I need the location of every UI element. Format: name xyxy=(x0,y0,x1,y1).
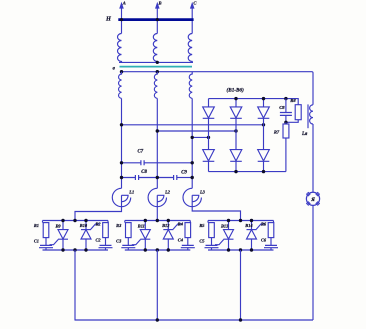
capacitor C4 lead xyxy=(187,238,189,246)
thyristor B14 gate xyxy=(256,224,265,229)
capacitor C1 lead xyxy=(45,238,47,246)
svg-text:B: B xyxy=(158,1,162,6)
thyristor B11 xyxy=(144,221,146,230)
node B-tap xyxy=(156,129,159,132)
capacitor C8 xyxy=(135,175,138,180)
svg-text:C5: C5 xyxy=(199,238,205,243)
svg-text:B12: B12 xyxy=(161,223,170,228)
motor armature circle xyxy=(306,192,319,205)
capacitor C9 wire xyxy=(177,177,192,179)
node row2-B xyxy=(156,176,159,179)
resistor R4 xyxy=(189,221,191,223)
svg-text:Lя: Lя xyxy=(301,132,308,137)
node star-B xyxy=(156,70,159,73)
thyristor B11 gate xyxy=(132,240,141,245)
wire phase C to bridge leg1 xyxy=(192,136,208,138)
module 3 bottom node xyxy=(227,248,230,251)
transformer primary winding W1 xyxy=(118,34,122,63)
node bridge top leg3 xyxy=(262,97,265,100)
svg-text:(B1-B6): (B1-B6) xyxy=(227,86,245,93)
resistor R7 xyxy=(285,122,287,124)
phase C arrow xyxy=(190,2,195,9)
svg-text:R8: R8 xyxy=(290,98,296,103)
module 3 top node xyxy=(227,219,230,222)
capacitor C3 xyxy=(121,245,135,247)
diode B3 xyxy=(263,99,265,107)
transformer core xyxy=(120,66,193,68)
module 3 top rail xyxy=(208,220,274,222)
node bus m2 xyxy=(156,318,159,321)
node leg2-tap xyxy=(234,129,237,132)
module 1 top node xyxy=(73,219,76,222)
capacitor C5 xyxy=(205,245,219,247)
svg-text:L2: L2 xyxy=(164,189,171,194)
node bridge bottom leg3 xyxy=(262,170,265,173)
module 2 bottom rail xyxy=(125,249,191,251)
phase C vertical wire xyxy=(191,98,193,188)
capacitor C8 wire xyxy=(122,177,174,179)
capacitor C5 lead xyxy=(211,238,213,246)
motor brush xyxy=(307,202,311,206)
phase B vertical wire xyxy=(156,98,158,188)
thyristor B12 gate xyxy=(173,224,182,229)
bridge bottom rail xyxy=(209,171,286,173)
transformer secondary winding w1 xyxy=(119,72,122,99)
node bus-A xyxy=(120,18,123,21)
svg-text:R6: R6 xyxy=(261,222,267,227)
module 2 top node xyxy=(156,219,159,222)
thyristor B13 gate xyxy=(215,240,224,245)
node bus m3 xyxy=(239,318,242,321)
phase B input line xyxy=(156,7,158,34)
capacitor C3 lead xyxy=(127,238,129,246)
capacitor C6 xyxy=(264,245,278,247)
module 2 top rail xyxy=(125,220,191,222)
svg-text:C4: C4 xyxy=(178,238,184,243)
reactor L3 xyxy=(183,188,201,206)
svg-text:R5: R5 xyxy=(199,223,205,228)
diode B6 xyxy=(258,150,270,161)
node row2-C xyxy=(191,176,194,179)
node star-A xyxy=(120,70,123,73)
reactor L1 xyxy=(112,188,130,206)
thyristor B14 xyxy=(251,221,253,230)
wire phase B to bridge leg2 xyxy=(157,130,236,132)
diode B1 xyxy=(208,99,210,107)
thyristor B13 xyxy=(228,221,230,230)
module 2 bottom node xyxy=(167,248,170,251)
transformer secondary winding w2 xyxy=(154,72,157,99)
node bridge top leg2 xyxy=(234,97,237,100)
wire La to motor xyxy=(312,124,314,192)
reactor La winding xyxy=(310,105,313,124)
transformer primary winding W3 xyxy=(188,34,192,63)
module 1 bottom node xyxy=(61,248,64,251)
thyristor B9 xyxy=(62,221,64,230)
diode B4 xyxy=(203,150,215,161)
module 2 bottom node xyxy=(156,248,159,251)
diode B5 xyxy=(230,150,242,161)
thyristor B10 gate xyxy=(91,224,100,229)
bottom bus xyxy=(75,319,314,321)
resistor R1 xyxy=(42,221,44,223)
module 1 bottom node xyxy=(84,248,87,251)
wire reactor L3 to module 3 xyxy=(192,207,240,221)
module 2 top node xyxy=(144,219,147,222)
secondary star bus wire xyxy=(122,72,314,105)
bus bar H xyxy=(118,18,193,21)
svg-text:C6: C6 xyxy=(261,238,267,243)
motor brush xyxy=(307,192,311,196)
reactor L2 xyxy=(148,188,166,206)
module 1 top node xyxy=(61,219,64,222)
capacitor C1 xyxy=(39,245,53,247)
module 1 drop wire xyxy=(74,250,76,320)
resistor R8 xyxy=(295,105,301,120)
capacitor C9 xyxy=(174,175,177,180)
phase A vertical wire xyxy=(121,98,123,188)
transformer primary winding W2 xyxy=(153,34,157,63)
motor brush xyxy=(316,202,320,206)
phase A arrow xyxy=(119,2,124,9)
svg-text:B11: B11 xyxy=(137,223,145,228)
module 3 top node xyxy=(250,219,253,222)
svg-text:L1: L1 xyxy=(128,189,134,194)
capacitor C7 wire xyxy=(122,162,193,164)
diode B2 xyxy=(235,99,237,107)
svg-text:C2: C2 xyxy=(96,238,102,243)
capacitor C6 lead xyxy=(270,238,272,246)
capacitor C2 lead xyxy=(105,238,107,246)
module 3 bottom node xyxy=(239,248,242,251)
resistor R5 xyxy=(207,221,209,223)
node RC junction xyxy=(284,121,287,124)
svg-text:A: A xyxy=(122,1,126,6)
bridge top rail xyxy=(209,99,299,105)
node row1-C xyxy=(191,161,194,164)
svg-text:R1: R1 xyxy=(34,223,39,228)
svg-text:R3: R3 xyxy=(116,223,122,228)
node A-tap xyxy=(120,123,123,126)
svg-text:B13: B13 xyxy=(220,223,229,228)
svg-text:C9: C9 xyxy=(181,171,187,176)
wire reactor L2 to module 2 xyxy=(156,207,158,221)
svg-text:R2: R2 xyxy=(96,222,102,227)
module 1 top rail xyxy=(43,220,109,222)
svg-text:R4: R4 xyxy=(178,222,184,227)
thyristor B12 xyxy=(167,221,169,230)
module 2 bottom node xyxy=(144,248,147,251)
motor brush xyxy=(316,192,320,196)
capacitor C2 xyxy=(99,245,113,247)
capacitor C7 xyxy=(141,160,144,165)
capacitor C4 xyxy=(181,245,195,247)
wire motor to bottom bus xyxy=(312,205,314,320)
node leg1-tap xyxy=(207,136,210,139)
svg-text:L3: L3 xyxy=(199,189,206,194)
resistor R3 xyxy=(124,221,126,223)
node C-tap xyxy=(191,136,194,139)
primary star link xyxy=(119,61,193,63)
thyristor B10 xyxy=(85,221,87,230)
svg-text:B9: B9 xyxy=(55,223,62,228)
node row1-A xyxy=(120,161,123,164)
svg-text:R7: R7 xyxy=(274,130,280,135)
svg-text:C1: C1 xyxy=(34,238,39,243)
svg-text:C8: C8 xyxy=(279,105,285,110)
svg-text:B14: B14 xyxy=(244,223,253,228)
node leg3-tap xyxy=(262,123,265,126)
module 1 top node xyxy=(84,219,87,222)
module 3 bottom rail xyxy=(208,249,274,251)
svg-text:C3: C3 xyxy=(116,238,122,243)
svg-text:C8: C8 xyxy=(141,170,147,175)
phase B arrow xyxy=(155,2,160,9)
module 1 bottom node xyxy=(73,248,76,251)
svg-text:C7: C7 xyxy=(138,150,144,155)
node primary star xyxy=(156,61,159,64)
module 1 bottom rail xyxy=(43,249,109,251)
node bridge bottom leg2 xyxy=(234,170,237,173)
reactor La core xyxy=(307,104,309,128)
node bridge top RC xyxy=(284,97,287,100)
capacitor C8b lead xyxy=(285,99,287,112)
wire phase A to bridge leg3 xyxy=(122,124,264,126)
resistor R6 xyxy=(273,221,275,223)
module 3 top node xyxy=(239,219,242,222)
module 2 top node xyxy=(167,219,170,222)
resistor R2 xyxy=(107,221,109,223)
phase C input line xyxy=(191,7,193,34)
capacitor C8b xyxy=(280,113,292,116)
node row2-A xyxy=(120,176,123,179)
svg-text:B10: B10 xyxy=(79,223,88,228)
transformer secondary winding w3 xyxy=(189,72,192,99)
module 3 drop wire xyxy=(240,250,242,320)
node bus-B xyxy=(156,18,159,21)
thyristor B9 gate xyxy=(50,240,59,245)
phase A input line xyxy=(121,7,123,34)
module 2 drop wire xyxy=(156,250,158,320)
svg-text:Я: Я xyxy=(310,197,315,203)
module 3 bottom node xyxy=(250,248,253,251)
wire reactor L1 to module 1 xyxy=(75,207,122,221)
